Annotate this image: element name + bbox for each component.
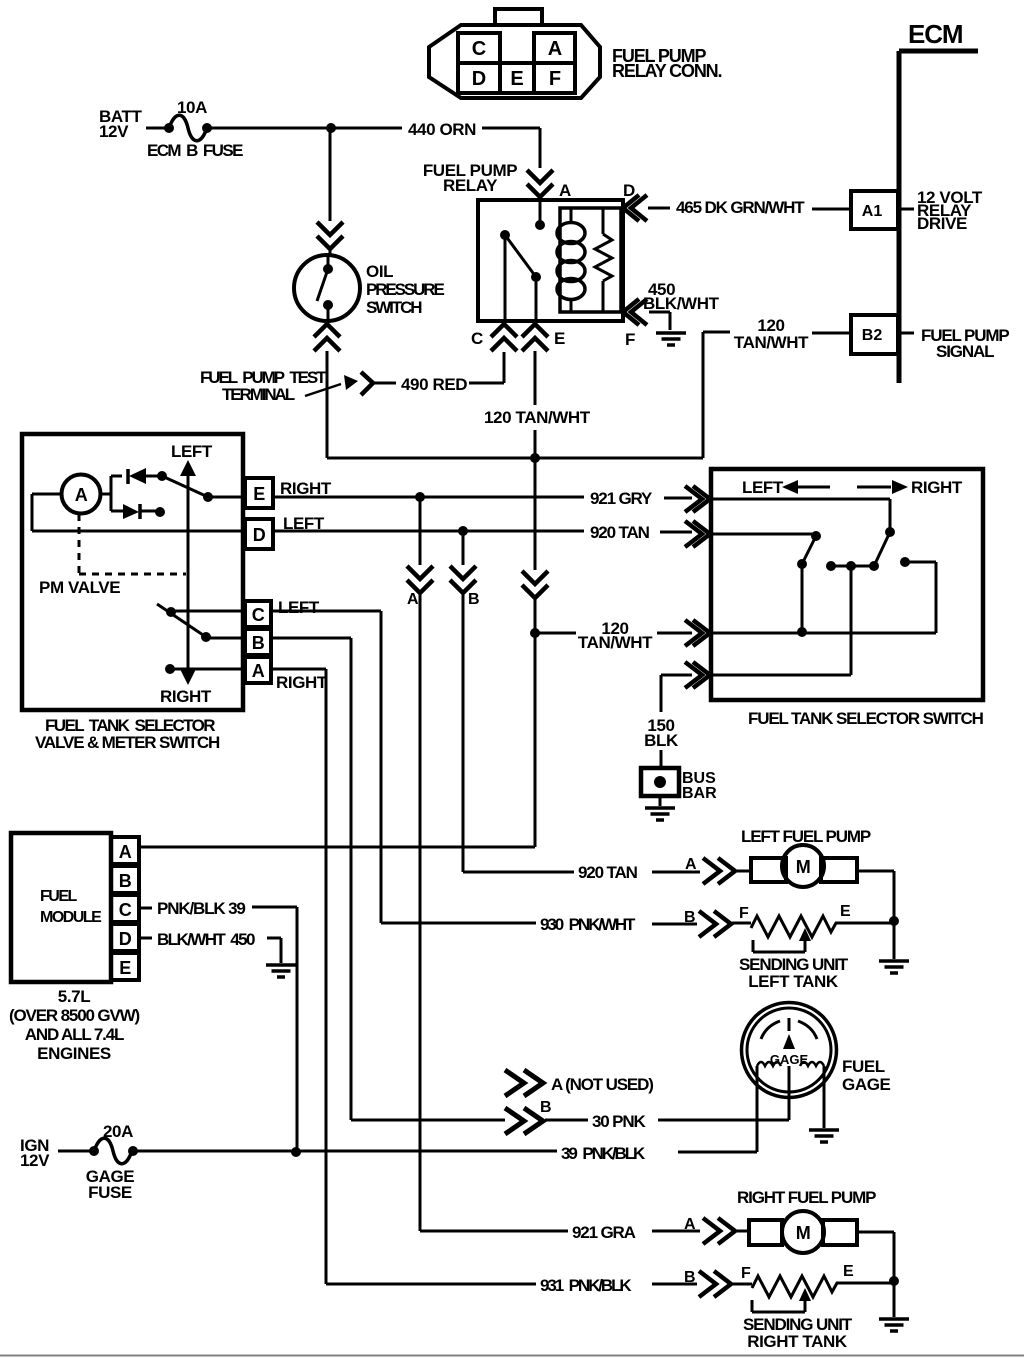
svg-text:RIGHT TANK: RIGHT TANK bbox=[747, 1332, 848, 1351]
svg-text:A: A bbox=[119, 842, 132, 862]
svg-text:TAN/WHT: TAN/WHT bbox=[578, 633, 653, 652]
svg-text:F: F bbox=[741, 1265, 751, 1282]
svg-text:C: C bbox=[471, 329, 483, 348]
svg-text:12V: 12V bbox=[20, 1151, 50, 1170]
svg-text:A: A bbox=[559, 181, 571, 200]
svg-text:920 TAN: 920 TAN bbox=[578, 863, 638, 882]
svg-text:BLK/WHT 450: BLK/WHT 450 bbox=[157, 930, 255, 949]
svg-text:LEFT: LEFT bbox=[742, 478, 784, 497]
svg-text:C: C bbox=[252, 605, 265, 625]
svg-text:D: D bbox=[119, 929, 132, 949]
svg-text:30 PNK: 30 PNK bbox=[592, 1112, 646, 1131]
svg-text:E: E bbox=[840, 903, 851, 920]
svg-text:A: A bbox=[252, 661, 265, 681]
svg-text:B: B bbox=[468, 591, 480, 608]
svg-text:BAR: BAR bbox=[682, 785, 717, 802]
svg-text:M: M bbox=[796, 857, 811, 877]
svg-text:(OVER 8500 GVW): (OVER 8500 GVW) bbox=[9, 1006, 140, 1025]
svg-text:120 TAN/WHT: 120 TAN/WHT bbox=[484, 408, 591, 427]
svg-text:920 TAN: 920 TAN bbox=[590, 523, 650, 542]
svg-text:LEFT: LEFT bbox=[278, 598, 320, 617]
svg-text:5.7L: 5.7L bbox=[58, 987, 90, 1006]
svg-text:OIL: OIL bbox=[366, 262, 393, 281]
svg-text:M: M bbox=[796, 1223, 811, 1243]
svg-text:LEFT TANK: LEFT TANK bbox=[748, 972, 839, 991]
svg-text:RELAY CONN.: RELAY CONN. bbox=[612, 61, 722, 81]
svg-text:A: A bbox=[685, 856, 697, 873]
svg-text:10A: 10A bbox=[177, 98, 207, 117]
svg-text:LEFT: LEFT bbox=[171, 442, 213, 461]
svg-text:E: E bbox=[510, 68, 523, 90]
svg-text:B: B bbox=[119, 871, 132, 891]
svg-text:FUSE: FUSE bbox=[88, 1183, 132, 1202]
svg-text:39 PNK/BLK: 39 PNK/BLK bbox=[561, 1144, 646, 1163]
svg-text:PRESSURE: PRESSURE bbox=[366, 280, 444, 299]
svg-text:B: B bbox=[252, 633, 265, 653]
svg-text:ECM: ECM bbox=[908, 19, 962, 49]
svg-text:SIGNAL: SIGNAL bbox=[936, 342, 994, 361]
svg-text:RIGHT: RIGHT bbox=[160, 687, 212, 706]
svg-text:F: F bbox=[739, 905, 749, 922]
svg-text:LEFT FUEL PUMP: LEFT FUEL PUMP bbox=[741, 827, 871, 846]
svg-text:931 PNK/BLK: 931 PNK/BLK bbox=[540, 1276, 632, 1295]
svg-text:20A: 20A bbox=[103, 1122, 133, 1141]
svg-text:VALVE & METER SWITCH: VALVE & METER SWITCH bbox=[35, 733, 220, 752]
svg-text:RIGHT FUEL PUMP: RIGHT FUEL PUMP bbox=[737, 1188, 876, 1207]
svg-text:930 PNK/WHT: 930 PNK/WHT bbox=[540, 915, 636, 934]
svg-text:12V: 12V bbox=[99, 122, 129, 141]
svg-text:GAGE: GAGE bbox=[770, 1052, 809, 1067]
svg-text:AND ALL 7.4L: AND ALL 7.4L bbox=[25, 1025, 124, 1044]
svg-text:RIGHT: RIGHT bbox=[280, 479, 332, 498]
svg-text:PNK/BLK 39: PNK/BLK 39 bbox=[157, 899, 245, 918]
svg-text:A (NOT USED): A (NOT USED) bbox=[551, 1075, 653, 1094]
svg-text:D: D bbox=[472, 68, 486, 90]
svg-text:BLK/WHT: BLK/WHT bbox=[643, 294, 720, 313]
svg-text:B: B bbox=[684, 909, 696, 926]
svg-text:440 ORN: 440 ORN bbox=[408, 120, 476, 139]
svg-text:D: D bbox=[253, 525, 266, 545]
svg-text:B: B bbox=[684, 1269, 696, 1286]
svg-text:DRIVE: DRIVE bbox=[917, 214, 967, 233]
svg-text:ECM B FUSE: ECM B FUSE bbox=[147, 141, 243, 160]
svg-text:PM VALVE: PM VALVE bbox=[39, 578, 120, 597]
svg-text:490 RED: 490 RED bbox=[401, 375, 467, 394]
svg-text:E: E bbox=[554, 329, 565, 348]
svg-text:E: E bbox=[253, 484, 265, 504]
svg-text:C: C bbox=[119, 900, 132, 920]
svg-text:A: A bbox=[75, 485, 88, 505]
svg-text:E: E bbox=[119, 958, 131, 978]
svg-text:TERMINAL: TERMINAL bbox=[222, 385, 295, 404]
svg-text:MODULE: MODULE bbox=[40, 909, 102, 926]
svg-text:GAGE: GAGE bbox=[842, 1075, 891, 1094]
svg-text:A: A bbox=[407, 591, 419, 608]
svg-text:RELAY: RELAY bbox=[443, 176, 498, 195]
svg-text:ENGINES: ENGINES bbox=[37, 1044, 111, 1063]
svg-text:SWITCH: SWITCH bbox=[366, 298, 422, 317]
svg-text:A: A bbox=[548, 38, 562, 60]
svg-text:F: F bbox=[549, 68, 561, 90]
svg-text:F: F bbox=[625, 330, 635, 349]
svg-text:921 GRY: 921 GRY bbox=[590, 489, 653, 508]
svg-text:RIGHT: RIGHT bbox=[276, 673, 328, 692]
svg-text:RIGHT: RIGHT bbox=[911, 478, 963, 497]
svg-text:BLK: BLK bbox=[644, 731, 679, 750]
svg-text:TAN/WHT: TAN/WHT bbox=[734, 333, 809, 352]
svg-text:B: B bbox=[540, 1099, 552, 1116]
svg-text:B2: B2 bbox=[862, 327, 883, 344]
svg-text:FUEL: FUEL bbox=[40, 888, 78, 905]
svg-text:921 GRA: 921 GRA bbox=[572, 1223, 636, 1242]
svg-text:C: C bbox=[472, 38, 486, 60]
svg-text:FUEL TANK SELECTOR SWITCH: FUEL TANK SELECTOR SWITCH bbox=[748, 709, 984, 728]
svg-text:FUEL: FUEL bbox=[842, 1057, 885, 1076]
svg-text:A1: A1 bbox=[862, 203, 883, 220]
svg-text:E: E bbox=[843, 1263, 854, 1280]
svg-text:A: A bbox=[684, 1216, 696, 1233]
svg-text:465 DK GRN/WHT: 465 DK GRN/WHT bbox=[676, 198, 805, 217]
